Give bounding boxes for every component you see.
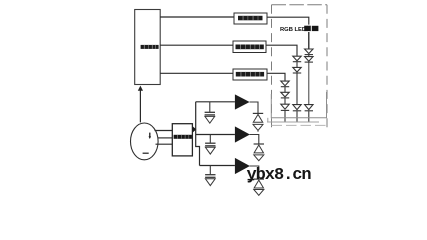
green LED driver box xyxy=(233,41,266,53)
LED D8 xyxy=(281,92,289,97)
MCU box U1 xyxy=(135,10,161,85)
amplifier A3 xyxy=(235,158,250,174)
LED D3 string C xyxy=(305,105,313,122)
MCU label text (blurred CJK) xyxy=(141,45,159,49)
amplifier A1 xyxy=(235,94,250,109)
LED string B xyxy=(293,56,301,122)
blue LED driver box xyxy=(233,69,267,80)
rectifier label (blurred CJK) xyxy=(174,135,192,139)
capacitor C1 xyxy=(205,102,215,115)
LED D1 string C xyxy=(305,49,313,55)
AC source bottom dash xyxy=(143,152,149,154)
string C mid wire xyxy=(308,63,310,105)
AC source G1 xyxy=(131,123,159,160)
RGB LED array dashed box xyxy=(272,5,328,129)
ground below C2 xyxy=(205,147,215,154)
diode D10 xyxy=(253,113,263,122)
LED string A xyxy=(281,81,289,122)
LED D7 xyxy=(281,81,289,86)
wire A3 output xyxy=(250,166,259,179)
red LED driver box xyxy=(234,13,267,24)
LED string C wire xyxy=(308,32,310,49)
ground below D12 xyxy=(254,190,264,196)
LED D2 string C xyxy=(305,55,313,62)
capacitor C3 xyxy=(205,166,215,178)
LED D4 xyxy=(293,56,301,61)
RGB LED array label xyxy=(280,25,320,32)
supply rail xyxy=(196,102,200,166)
bus junction wire xyxy=(267,118,269,122)
wire A2 output xyxy=(250,135,259,144)
wire rail to amp2 xyxy=(196,134,235,136)
wire green driver to string B top xyxy=(266,45,297,56)
rectifier output arrow xyxy=(192,126,196,133)
wire MCU to red driver xyxy=(160,16,234,18)
ground below C3 xyxy=(205,179,215,186)
diode D11 xyxy=(254,144,264,153)
wire MCU to blue driver xyxy=(160,72,233,74)
amplifier A2 xyxy=(235,126,250,142)
wire A1 output xyxy=(250,102,258,113)
wire MCU to green driver xyxy=(160,44,233,46)
svg-text:RGB LED: RGB LED xyxy=(280,27,306,33)
array bottom bus 2 xyxy=(267,121,319,123)
array return bus (U shape) xyxy=(271,92,326,118)
arrowhead into MCU xyxy=(138,86,143,91)
LED D6 xyxy=(293,105,301,110)
ground below D10 xyxy=(253,124,263,131)
capacitor C2 xyxy=(205,135,215,146)
ground below C1 xyxy=(205,116,215,123)
diode D12 xyxy=(254,179,264,188)
wire rail to amp3 xyxy=(200,165,235,167)
wire rail to amp1 xyxy=(196,101,235,103)
rectifier box xyxy=(172,124,192,156)
wires AC source to rectifier xyxy=(155,131,173,145)
wire red driver to string C top xyxy=(267,17,309,49)
power wire to MCU xyxy=(139,90,141,122)
LED D5 xyxy=(293,67,301,72)
LED D9 xyxy=(281,104,289,109)
svg-text:ybx8.cn: ybx8.cn xyxy=(247,166,312,185)
AC source inner arrow xyxy=(149,133,151,137)
ground below D11 xyxy=(254,155,264,161)
wire blue driver to string A top xyxy=(267,73,285,81)
watermark ybx8.cn xyxy=(247,166,312,185)
